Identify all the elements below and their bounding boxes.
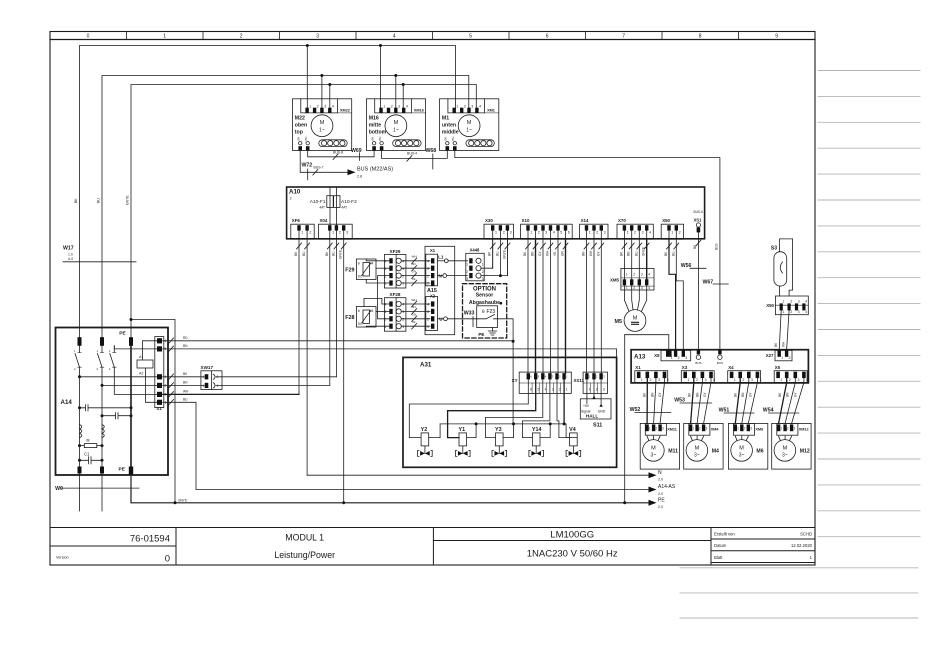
svg-text:4: 4 <box>648 286 650 290</box>
svg-text:2: 2 <box>787 427 789 431</box>
svg-text:XF28: XF28 <box>390 292 401 297</box>
svg-text:A10-F2: A10-F2 <box>341 199 357 205</box>
wires below X30 <box>492 239 494 268</box>
svg-text:3: 3 <box>427 267 429 271</box>
hall sensor S11 <box>580 399 611 419</box>
svg-text:XM4: XM4 <box>711 428 720 432</box>
svg-text:XY: XY <box>512 378 518 383</box>
svg-text:1: 1 <box>780 427 782 431</box>
svg-text:1: 1 <box>627 231 629 235</box>
connector X1 (A14) <box>157 338 162 343</box>
svg-text:M22: M22 <box>295 116 305 122</box>
svg-text:XF6: XF6 <box>292 218 301 223</box>
svg-text:1: 1 <box>163 34 166 40</box>
wires below X10 to XY <box>527 239 529 373</box>
connector X3 (A13) <box>681 371 714 383</box>
arrow A14-AS <box>649 487 657 493</box>
wire X50 pin2 to X5 pin3 <box>676 239 683 350</box>
wire row6 to A14-AS arrow <box>163 402 649 489</box>
svg-text:XM1: XM1 <box>487 108 495 112</box>
svg-text:1~: 1~ <box>319 128 325 134</box>
svg-text:θ: θ <box>482 309 485 314</box>
svg-text:unten: unten <box>442 123 456 129</box>
svg-text:XW17: XW17 <box>201 365 214 370</box>
svg-text:4: 4 <box>649 231 651 235</box>
svg-text:BN: BN <box>627 251 631 256</box>
cable W69 <box>308 151 374 157</box>
svg-text:X04: X04 <box>320 218 328 223</box>
svg-text:X27: X27 <box>766 353 774 358</box>
wires XM5 to M5 <box>624 285 646 311</box>
connector X2 (A15) <box>426 297 438 331</box>
svg-text:BU: BU <box>634 251 638 256</box>
wire M22 pin3 drop <box>321 76 323 109</box>
svg-text:BK: BK <box>444 137 448 141</box>
svg-text:WH: WH <box>546 250 550 256</box>
wire M16 pin3 drop <box>395 76 397 109</box>
svg-text:BK: BK <box>296 137 300 141</box>
svg-text:3: 3 <box>398 105 400 109</box>
svg-text:2: 2 <box>482 270 484 274</box>
wire PE bus top <box>131 85 476 338</box>
svg-text:2: 2 <box>339 231 341 235</box>
svg-text:X1: X1 <box>430 248 436 253</box>
svg-text:XM11: XM11 <box>667 428 677 432</box>
svg-text:3: 3 <box>750 427 752 431</box>
wire M22 pin4 drop <box>329 85 331 109</box>
svg-text:XS1: XS1 <box>694 218 703 223</box>
svg-text:4: 4 <box>713 378 715 382</box>
arrow N <box>649 472 657 478</box>
wire F29 top to XF29 row4 <box>366 259 389 261</box>
svg-text:2: 2 <box>317 105 319 109</box>
svg-text:BN: BN <box>695 392 699 397</box>
svg-text:XM22: XM22 <box>340 108 350 112</box>
svg-text:M: M <box>739 445 744 451</box>
svg-text:M: M <box>783 445 788 451</box>
svg-text:BN: BN <box>183 344 188 348</box>
wire coil A2 to X1 row6 <box>146 368 158 402</box>
cable W72 / BUS arrow <box>300 151 347 173</box>
svg-text:YE: YE <box>412 277 416 281</box>
svg-text:X1: X1 <box>635 365 641 370</box>
svg-text:6: 6 <box>530 388 532 392</box>
svg-text:3~: 3~ <box>694 452 700 458</box>
svg-text:GN: GN <box>412 269 417 273</box>
svg-text:1NAC230 V 50/60 Hz: 1NAC230 V 50/60 Hz <box>527 549 618 560</box>
cable W0 <box>80 474 103 512</box>
svg-text:6: 6 <box>546 34 549 40</box>
svg-text:3: 3 <box>641 286 643 290</box>
svg-text:2: 2 <box>633 273 635 277</box>
A14 vertical rails <box>80 377 103 473</box>
svg-text:3: 3 <box>290 197 292 201</box>
svg-text:3: 3 <box>658 378 660 382</box>
svg-text:1: 1 <box>671 356 673 360</box>
svg-text:7: 7 <box>622 34 625 40</box>
svg-text:M4: M4 <box>369 309 374 313</box>
svg-text:M: M <box>394 120 399 126</box>
fuse A10-F2 <box>334 196 340 208</box>
wires XF28 to A15 X2 <box>401 303 430 305</box>
wire row5 to XF6 pin1 <box>163 393 299 395</box>
svg-text:12.02.2020: 12.02.2020 <box>791 543 813 548</box>
svg-text:3: 3 <box>346 231 348 235</box>
module A15 <box>425 246 455 334</box>
capacitor pole1-PE <box>80 405 132 411</box>
svg-text:3: 3 <box>466 277 468 281</box>
svg-text:BN: BN <box>412 262 416 266</box>
svg-text:2: 2 <box>678 356 680 360</box>
svg-text:X3: X3 <box>682 365 688 370</box>
svg-text:W68: W68 <box>426 148 437 154</box>
svg-text:GNYE: GNYE <box>339 250 343 259</box>
arrow PE <box>649 500 657 506</box>
svg-text:BUS: BUS <box>715 243 719 250</box>
node L1 <box>438 260 445 262</box>
wire L bus top <box>80 46 456 338</box>
svg-text:BU: BU <box>97 198 101 203</box>
svg-text:A14: A14 <box>61 399 73 406</box>
wire pole1 to X1 row3 <box>80 372 158 377</box>
wire SD (A14 X1 row1) <box>163 340 513 342</box>
svg-text:Y14: Y14 <box>532 427 542 433</box>
svg-text:BN: BN <box>531 251 535 256</box>
svg-text:2: 2 <box>742 378 744 382</box>
svg-text:2: 2 <box>655 427 657 431</box>
module A14 <box>56 328 169 476</box>
svg-text:LM100GG: LM100GG <box>550 530 594 541</box>
svg-text:3: 3 <box>604 231 606 235</box>
svg-text:Blatt: Blatt <box>714 555 723 560</box>
svg-text:PE: PE <box>658 497 665 503</box>
svg-text:1: 1 <box>203 375 205 379</box>
svg-text:BN: BN <box>582 251 586 256</box>
svg-text:WH: WH <box>782 341 786 347</box>
svg-text:S3: S3 <box>771 246 777 252</box>
wires A13 X4 to M6 <box>735 378 740 423</box>
svg-text:2: 2 <box>384 318 386 322</box>
svg-text:2: 2 <box>596 231 598 235</box>
svg-text:1: 1 <box>589 231 591 235</box>
svg-text:2: 2 <box>789 378 791 382</box>
svg-text:BN: BN <box>650 392 654 397</box>
svg-text:M: M <box>320 120 325 126</box>
svg-text:X50: X50 <box>662 218 670 223</box>
wires below XF6 <box>298 239 300 394</box>
svg-text:A13: A13 <box>634 354 646 361</box>
node N <box>438 275 443 277</box>
svg-text:DC: DC <box>358 275 363 279</box>
svg-text:1: 1 <box>402 325 404 329</box>
svg-text:2: 2 <box>402 318 404 322</box>
svg-text:X5: X5 <box>654 353 660 358</box>
svg-text:3: 3 <box>641 273 643 277</box>
motor M11 <box>640 423 679 469</box>
svg-text:5: 5 <box>560 231 562 235</box>
svg-text:YE: YE <box>412 320 416 324</box>
svg-text:Erstellt von: Erstellt von <box>714 532 735 537</box>
module A13 <box>631 350 808 383</box>
wires below X70 to XM5 <box>623 239 625 279</box>
svg-text:3: 3 <box>603 388 605 392</box>
svg-text:2: 2 <box>464 105 466 109</box>
svg-text:2: 2 <box>650 378 652 382</box>
svg-text:1~: 1~ <box>393 128 399 134</box>
svg-text:1: 1 <box>383 105 385 109</box>
svg-text:L1: L1 <box>438 254 444 259</box>
wire S3 bottom to X50 pin1 <box>779 286 781 296</box>
svg-text:2.0: 2.0 <box>658 492 663 496</box>
svg-text:3: 3 <box>793 427 795 431</box>
connector X27 <box>775 350 792 360</box>
svg-text:9: 9 <box>775 34 778 40</box>
svg-text:X50: X50 <box>766 303 774 308</box>
svg-text:2: 2 <box>538 231 540 235</box>
svg-text:2: 2 <box>790 310 792 314</box>
svg-text:A31: A31 <box>420 362 432 369</box>
svg-text:3: 3 <box>510 231 512 235</box>
svg-text:M1: M1 <box>442 116 449 122</box>
wires XW17 to X04 <box>216 376 336 378</box>
svg-text:WH: WH <box>183 390 189 394</box>
svg-text:1: 1 <box>626 286 628 290</box>
svg-text:4: 4 <box>805 310 807 314</box>
svg-text:1: 1 <box>165 401 167 405</box>
wires X50b to X27 <box>779 310 789 350</box>
svg-text:2: 2 <box>789 356 791 360</box>
svg-text:2: 2 <box>744 427 746 431</box>
svg-text:1: 1 <box>692 427 694 431</box>
svg-text:+5V: +5V <box>583 404 590 408</box>
svg-text:M: M <box>633 316 638 322</box>
svg-text:BN: BN <box>183 381 188 385</box>
wire F29 mid to XF29 row3 <box>376 267 390 269</box>
svg-text:2: 2 <box>679 231 681 235</box>
svg-text:SCHD: SCHD <box>800 532 812 537</box>
title block <box>50 528 815 566</box>
svg-text:BUS: BUS <box>717 361 723 365</box>
svg-text:BU: BU <box>183 398 188 402</box>
svg-text:X10: X10 <box>522 218 530 223</box>
svg-text:M16: M16 <box>369 116 379 122</box>
svg-text:PE: PE <box>119 330 126 336</box>
svg-text:4: 4 <box>402 303 404 307</box>
svg-text:2.8: 2.8 <box>357 175 362 179</box>
svg-text:A14-AS: A14-AS <box>658 484 676 490</box>
svg-text:4: 4 <box>427 303 429 307</box>
connector X14 <box>580 224 608 239</box>
svg-text:2: 2 <box>699 427 701 431</box>
svg-text:Sensor: Sensor <box>476 292 494 298</box>
svg-text:XS11: XS11 <box>574 378 585 383</box>
svg-text:top: top <box>295 130 303 136</box>
svg-text:XM12: XM12 <box>799 428 809 432</box>
inductor pole2 <box>102 425 104 438</box>
svg-text:A10-F1: A10-F1 <box>310 199 326 205</box>
wire N bus top <box>102 76 469 338</box>
svg-text:M: M <box>695 445 700 451</box>
wires XF29 to A15 X1 <box>401 260 430 262</box>
svg-text:2: 2 <box>427 274 429 278</box>
svg-text:4: 4 <box>332 105 334 109</box>
svg-text:3: 3 <box>316 34 319 40</box>
svg-text:PE: PE <box>119 467 126 473</box>
svg-text:F28: F28 <box>345 315 354 321</box>
svg-text:Y3: Y3 <box>495 427 502 433</box>
svg-text:1: 1 <box>332 231 334 235</box>
fuse A10-F1 <box>327 196 333 208</box>
svg-text:BUS-7: BUS-7 <box>314 166 324 170</box>
svg-text:1: 1 <box>456 105 458 109</box>
motor M1 <box>440 99 499 151</box>
svg-text:4: 4 <box>806 378 808 382</box>
connector X5 (A13) <box>661 350 691 360</box>
svg-text:3: 3 <box>384 267 386 271</box>
capacitor pole2-PE <box>102 413 131 419</box>
thermal switch F23 <box>477 306 498 328</box>
svg-text:middle: middle <box>442 130 459 136</box>
svg-text:4: 4 <box>667 378 669 382</box>
module A31 <box>403 357 617 467</box>
svg-text:1: 1 <box>309 105 311 109</box>
svg-text:BU: BU <box>331 251 335 256</box>
svg-text:M: M <box>651 445 656 451</box>
svg-text:2: 2 <box>217 375 219 379</box>
wire X5 loop to PE <box>624 335 626 503</box>
wire X448 row2 to X30 pin1 <box>481 239 493 268</box>
svg-text:1: 1 <box>671 231 673 235</box>
svg-text:4: 4 <box>648 273 650 277</box>
svg-text:X30: X30 <box>485 218 493 223</box>
svg-text:4: 4 <box>760 378 762 382</box>
svg-text:XM6: XM6 <box>755 428 763 432</box>
svg-text:F29: F29 <box>345 267 354 273</box>
connector XY <box>519 372 571 393</box>
svg-text:θ: θ <box>358 262 360 266</box>
svg-text:GNYE: GNYE <box>126 195 130 205</box>
inductor pole1 <box>80 425 82 438</box>
svg-text:4: 4 <box>384 260 386 264</box>
motor M12 <box>772 423 811 469</box>
svg-text:2: 2 <box>466 270 468 274</box>
svg-text:X14: X14 <box>581 218 589 223</box>
svg-text:X5: X5 <box>775 365 781 370</box>
wire pole3 to X1 row5 <box>114 372 157 394</box>
svg-text:1: 1 <box>566 388 568 392</box>
svg-text:4: 4 <box>553 231 555 235</box>
svg-text:BU: BU <box>671 251 675 256</box>
wire F29 bottom to XF29 row1 <box>366 280 389 284</box>
thermal cutout F29 <box>356 259 376 280</box>
wire XS1 to A13 BUS <box>697 232 699 350</box>
svg-text:3: 3 <box>402 267 404 271</box>
svg-text:3: 3 <box>471 105 473 109</box>
svg-text:2: 2 <box>696 378 698 382</box>
svg-text:XF29: XF29 <box>390 249 401 254</box>
svg-text:4: 4 <box>427 260 429 264</box>
svg-text:2.0: 2.0 <box>658 478 663 482</box>
svg-text:X70: X70 <box>618 218 626 223</box>
svg-text:1: 1 <box>781 356 783 360</box>
wire SN (A14 X1 row2) long to A31 corner <box>163 349 617 358</box>
connector X10 <box>521 224 573 239</box>
svg-text:Y1: Y1 <box>459 427 466 433</box>
connector X70 <box>617 224 653 239</box>
svg-text:W67: W67 <box>703 280 714 286</box>
wire N line to arrow <box>307 474 648 476</box>
svg-text:1~: 1~ <box>466 128 472 134</box>
svg-text:1: 1 <box>402 282 404 286</box>
svg-text:BUS: BUS <box>695 361 701 365</box>
connector X1 (A13) <box>635 371 668 383</box>
svg-text:BUS-8: BUS-8 <box>333 151 343 155</box>
connector X1 (A15) <box>426 254 438 286</box>
module A10 <box>287 187 705 239</box>
svg-text:BK: BK <box>370 137 374 141</box>
svg-text:M4: M4 <box>369 262 374 266</box>
svg-text:X1: X1 <box>157 406 163 411</box>
svg-text:1: 1 <box>641 378 643 382</box>
wire X448 row3 to X30 pin3 <box>481 239 507 275</box>
svg-text:mitte: mitte <box>369 123 382 129</box>
svg-text:1: 1 <box>737 427 739 431</box>
svg-text:V4: V4 <box>569 427 576 433</box>
svg-text:BK: BK <box>74 198 78 203</box>
wire PE branch via 175 <box>131 320 175 503</box>
svg-text:M5: M5 <box>615 319 623 325</box>
connector X04 <box>319 224 353 239</box>
svg-text:YE: YE <box>553 252 557 256</box>
svg-text:PE: PE <box>478 332 484 337</box>
connector XF29 <box>384 255 406 289</box>
wire F23 out down to valve bus <box>498 319 514 424</box>
svg-text:2: 2 <box>790 300 792 304</box>
connector X30 <box>484 224 513 239</box>
svg-text:W72: W72 <box>302 163 313 169</box>
contactor coil A1 A2 <box>137 360 153 368</box>
svg-text:4: 4 <box>479 105 481 109</box>
svg-text:1: 1 <box>384 282 386 286</box>
svg-text:bottom: bottom <box>369 130 387 136</box>
connector XS11 <box>583 372 607 393</box>
wires below X04 <box>329 239 331 385</box>
A14 input pins <box>78 337 82 346</box>
page ruled lines right side <box>680 71 920 619</box>
svg-text:2: 2 <box>309 231 311 235</box>
svg-text:MODUL 1: MODUL 1 <box>285 533 324 543</box>
wire pole2 to X1 row4 <box>102 372 157 385</box>
svg-text:3: 3 <box>751 378 753 382</box>
svg-text:WH: WH <box>589 250 593 256</box>
motor M6 <box>728 423 767 469</box>
svg-text:A.0: A.0 <box>68 257 73 261</box>
motor M4 <box>684 423 723 469</box>
svg-text:4: 4 <box>393 34 396 40</box>
svg-text:3: 3 <box>798 310 800 314</box>
svg-text:1: 1 <box>783 300 785 304</box>
svg-text:W33: W33 <box>464 311 475 317</box>
wire pole3 top to X1 row2 <box>114 346 157 349</box>
svg-text:BN: BN <box>412 305 416 309</box>
svg-text:4AT: 4AT <box>319 206 325 210</box>
wire F28 bottom to XF28 row1 <box>366 325 389 328</box>
svg-text:M: M <box>467 120 472 126</box>
svg-text:4: 4 <box>805 300 807 304</box>
switch contacts <box>75 346 80 372</box>
svg-text:3: 3 <box>685 356 687 360</box>
svg-text:XM5: XM5 <box>610 278 620 283</box>
